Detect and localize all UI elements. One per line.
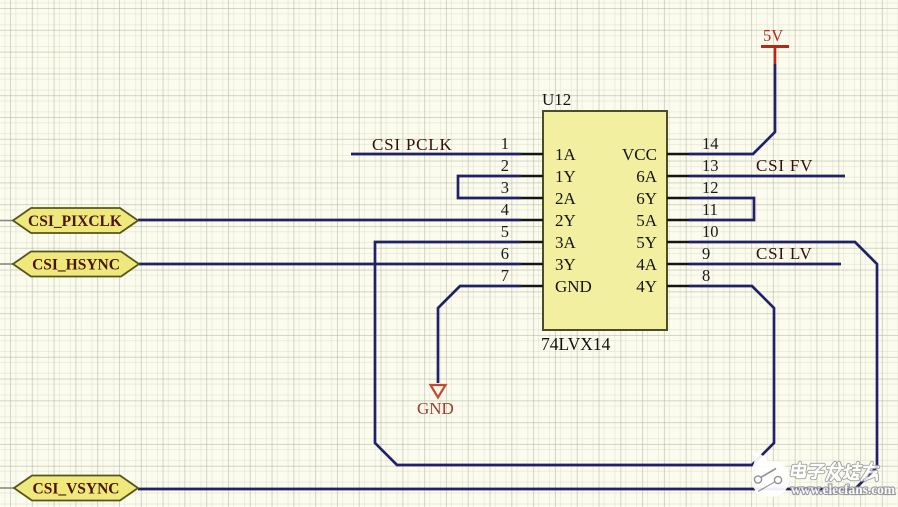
watermark logo	[752, 452, 790, 497]
wire pin 5 to pin 8 bottom loop	[375, 242, 774, 465]
pin 4 (2Y) stub	[521, 219, 543, 222]
svg-text:2Y: 2Y	[555, 211, 576, 230]
svg-text:4A: 4A	[636, 255, 658, 274]
pin 5 (3A) stub	[521, 241, 543, 244]
svg-text:1A: 1A	[555, 145, 577, 164]
svg-text:7: 7	[501, 266, 509, 285]
pin 3 (2A) stub	[521, 197, 543, 200]
svg-text:10: 10	[702, 222, 719, 241]
wire port CSI_PIXCLK to pin 4	[138, 219, 521, 222]
svg-text:6A: 6A	[636, 167, 658, 186]
svg-text:6: 6	[501, 244, 509, 263]
svg-text:CSI PCLK: CSI PCLK	[372, 135, 453, 154]
wire stub at left edge to port CSI_VSYNC	[0, 487, 14, 489]
svg-text:5: 5	[501, 222, 509, 241]
svg-text:GND: GND	[555, 277, 592, 296]
pin 9 (4A) stub	[667, 263, 689, 266]
svg-text:GND: GND	[417, 399, 454, 418]
svg-text:4: 4	[501, 200, 509, 219]
pin 7 (GND) stub	[521, 285, 543, 288]
svg-text:4Y: 4Y	[636, 277, 657, 296]
wire pin 10 to port CSI_VSYNC outer loop	[138, 242, 877, 489]
svg-text:9: 9	[702, 244, 710, 263]
wire stub at left edge to port CSI_HSYNC	[0, 263, 13, 265]
svg-text:CSI LV: CSI LV	[756, 244, 813, 263]
pin 14 (VCC) stub	[667, 153, 689, 156]
svg-text:U12: U12	[542, 90, 571, 109]
svg-text:VCC: VCC	[622, 145, 657, 164]
svg-text:5Y: 5Y	[636, 233, 657, 252]
port CSI_VSYNC	[14, 476, 138, 501]
svg-text:13: 13	[702, 156, 719, 175]
svg-text:2A: 2A	[555, 189, 577, 208]
svg-text:8: 8	[702, 266, 710, 285]
pin 12 (6Y) stub	[667, 197, 689, 200]
svg-text:5V: 5V	[763, 26, 783, 45]
pin 13 (6A) stub	[667, 175, 689, 178]
wire pin 9 net CSI_LV	[689, 263, 841, 266]
pin 6 (3Y) stub	[521, 263, 543, 266]
wire pin 14 to 5V rail	[689, 64, 775, 154]
port CSI_PIXCLK	[13, 208, 138, 233]
svg-text:3: 3	[501, 178, 509, 197]
wire port CSI_HSYNC to pin 6	[139, 263, 521, 266]
pin 1 (1A) stub	[521, 153, 543, 156]
svg-text:74LVX14: 74LVX14	[541, 334, 611, 354]
pin 11 (5A) stub	[667, 219, 689, 222]
svg-text:3Y: 3Y	[555, 255, 576, 274]
pin 10 (5Y) stub	[667, 241, 689, 244]
port CSI_HSYNC	[13, 252, 139, 277]
svg-text:www.elecfans.com: www.elecfans.com	[791, 482, 896, 497]
wire stub at left edge to port CSI_PIXCLK	[0, 220, 13, 222]
wire pin 12 to pin 11 loop	[689, 198, 754, 220]
svg-text:14: 14	[702, 134, 719, 153]
svg-text:1: 1	[501, 134, 509, 153]
svg-text:1Y: 1Y	[555, 167, 576, 186]
ground symbol GND	[431, 385, 446, 398]
svg-text:2: 2	[501, 156, 509, 175]
wire pin 13 net CSI_FV	[689, 175, 845, 178]
pin 2 (1Y) stub	[521, 175, 543, 178]
IC U12 body	[543, 111, 667, 330]
svg-text:CSI FV: CSI FV	[756, 156, 813, 175]
wire pin 2 to pin 3 loop	[458, 176, 521, 198]
pin 8 (4Y) stub	[667, 285, 689, 288]
svg-text:3A: 3A	[555, 233, 577, 252]
svg-text:5A: 5A	[636, 211, 658, 230]
power symbol 5V bar	[761, 47, 789, 65]
svg-text:12: 12	[702, 178, 719, 197]
svg-text:6Y: 6Y	[636, 189, 657, 208]
svg-text:CSI_PIXCLK: CSI_PIXCLK	[28, 213, 122, 230]
svg-text:11: 11	[702, 200, 718, 219]
wire net CSI_PCLK to pin 1	[351, 153, 521, 156]
wire pin 7 to ground	[438, 286, 521, 383]
svg-text:CSI_VSYNC: CSI_VSYNC	[33, 481, 120, 498]
svg-text:CSI_HSYNC: CSI_HSYNC	[32, 257, 120, 274]
